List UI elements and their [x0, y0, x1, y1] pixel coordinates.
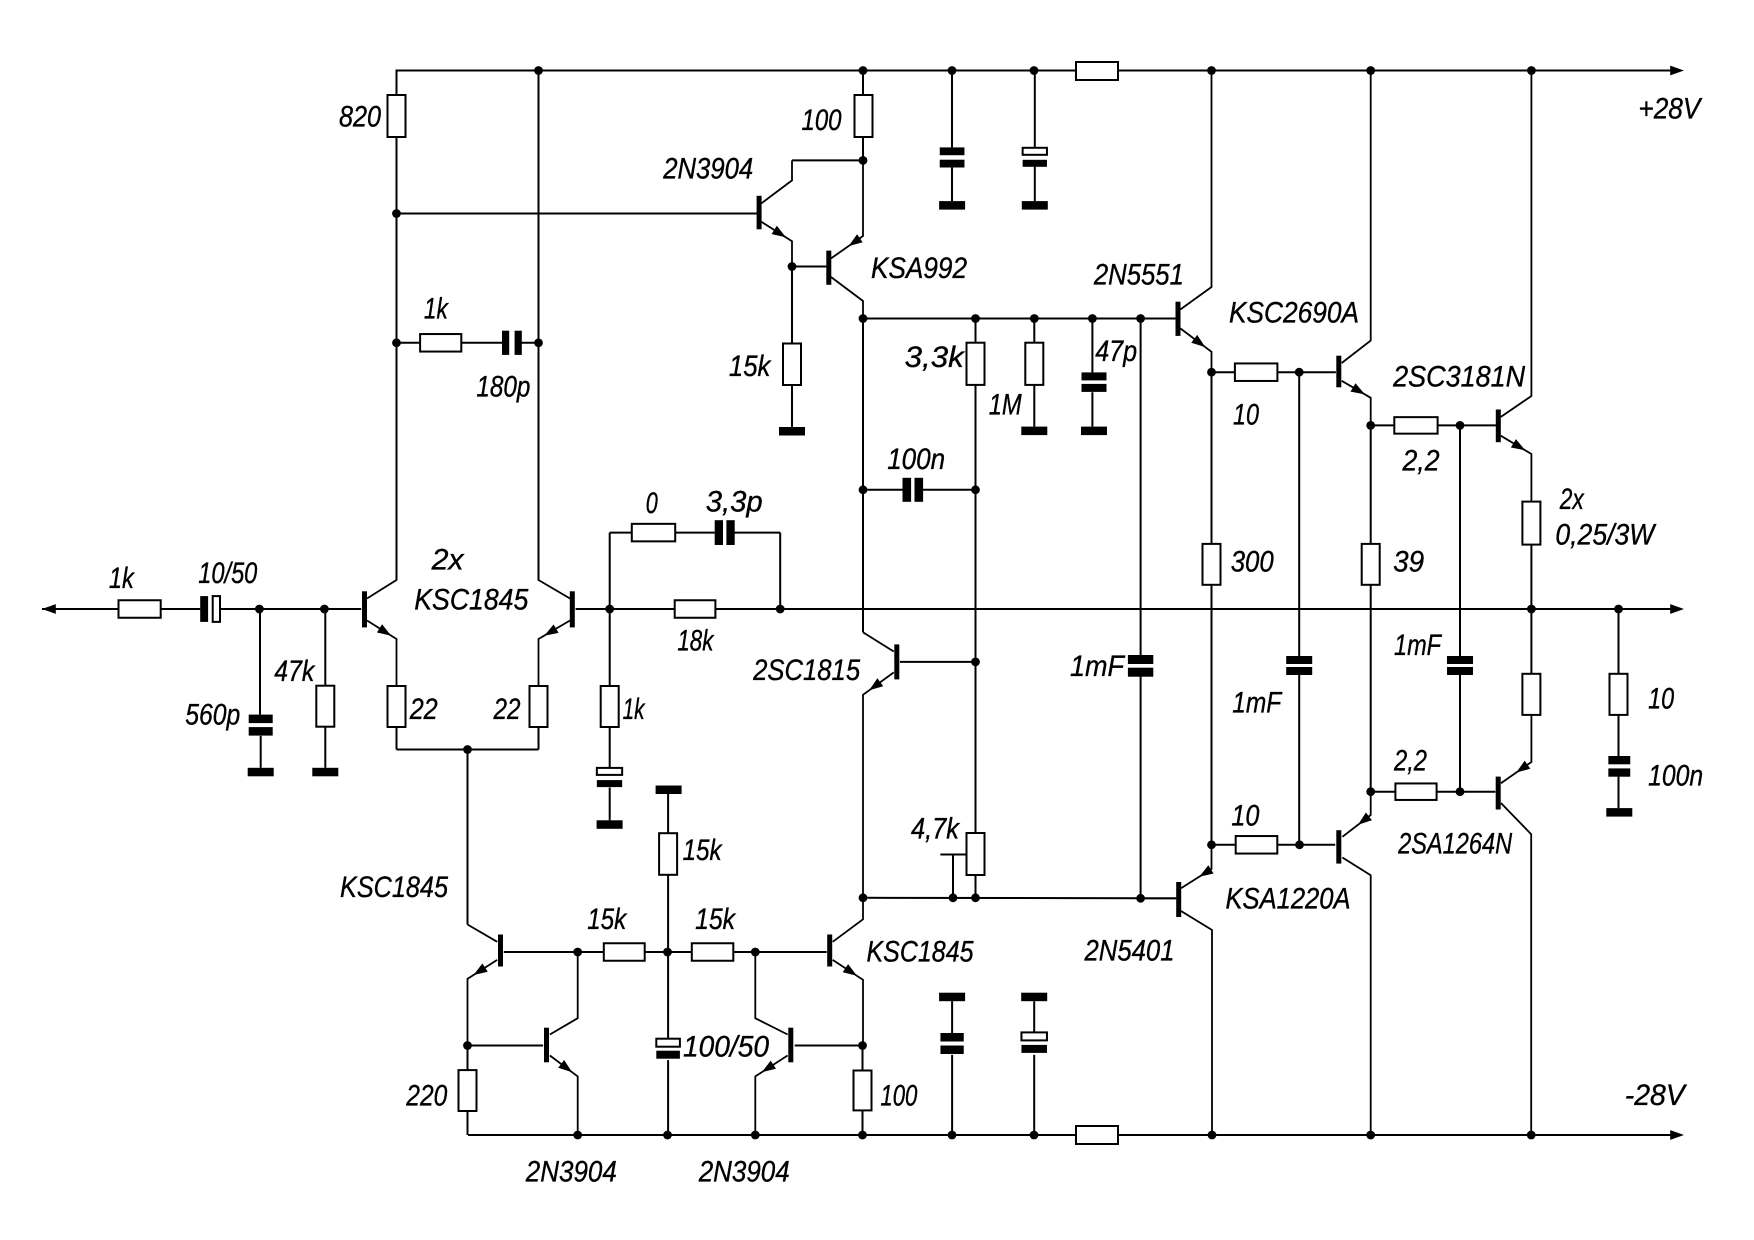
label 2x (input pair) — [431, 544, 465, 577]
svg-text:KSC1845: KSC1845 — [414, 584, 529, 617]
wire Q14 emitter diagonal — [1342, 792, 1370, 837]
svg-text:2N3904: 2N3904 — [698, 1156, 790, 1189]
wire Q2 emitter diagonal — [539, 621, 571, 687]
junction input node x=259.4 — [255, 605, 264, 614]
ground above bypass cap3 — [939, 993, 965, 1002]
svg-text:1mF: 1mF — [1232, 687, 1283, 720]
wire +28V rail right segment — [1118, 70, 1671, 72]
wire 100n left stub — [863, 489, 903, 491]
wire 3,3p to right corner — [734, 532, 780, 534]
capacitor 100n zobel — [1608, 756, 1630, 777]
wire 1299 cap leg lower — [1298, 675, 1300, 845]
junction output x=1618.5 — [1614, 605, 1623, 614]
ground above 15k mid — [656, 786, 682, 795]
junction x=1299.2 y=372.2 — [1295, 368, 1304, 377]
label 100 bottom — [880, 1080, 917, 1113]
capacitor 1mF (top driver-base link) — [1286, 656, 1312, 675]
label 10 zobel — [1648, 683, 1674, 716]
resistor 10 (bottom driver base) — [1236, 836, 1278, 854]
resistor 47k — [316, 686, 334, 727]
wire gnd to 15k mid — [667, 794, 669, 833]
svg-text:1k: 1k — [109, 562, 135, 595]
wire gnd to bypass cap4 — [1033, 1001, 1035, 1032]
junction x=396.5 y=342.8 (comp node) — [392, 338, 401, 347]
wire 15kR right — [733, 951, 755, 953]
svg-text:2,2: 2,2 — [1393, 745, 1427, 778]
junction on -28V rail x=862.5 — [858, 1131, 867, 1140]
svg-text:2SC3181N: 2SC3181N — [1392, 361, 1526, 394]
transistor Q8 2SC1815 (base bar) — [894, 644, 899, 679]
label 100 top — [802, 104, 842, 137]
svg-text:2N3904: 2N3904 — [662, 153, 753, 186]
wire output line (main) — [780, 608, 1671, 610]
label KSA992 — [871, 252, 967, 285]
junction Q5 emitter node — [1207, 368, 1216, 377]
arrow Q7 emitter — [1511, 439, 1525, 450]
wire 15kL left — [578, 951, 604, 953]
label KSC1845 vas — [867, 936, 974, 969]
junction VAS x=1140.6 — [1136, 314, 1145, 323]
svg-text:0,25/3W: 0,25/3W — [1555, 519, 1657, 552]
wire 18k to corner node — [715, 608, 780, 610]
svg-text:2,2: 2,2 — [1402, 445, 1440, 478]
label 15k bottom left — [587, 903, 627, 936]
junction KSA992 base node — [788, 262, 797, 271]
arrow Q15 emitter (PNP into bar) — [1516, 761, 1530, 773]
label 2N3904 bottom right — [698, 1156, 790, 1189]
wire rail corner to 820 — [396, 70, 398, 96]
svg-text:2SC1815: 2SC1815 — [752, 654, 860, 687]
wire right corner down — [779, 533, 781, 609]
svg-text:4,7k: 4,7k — [911, 813, 960, 846]
arrow Q1 emitter — [377, 624, 391, 636]
wire Q6 emitter diagonal — [1342, 381, 1371, 426]
wire Q15 emitter diagonal — [1501, 715, 1532, 783]
label 220 — [405, 1080, 447, 1113]
wire 100n zobel to ground — [1618, 777, 1620, 809]
wire Q11 base line — [468, 1045, 544, 1047]
wire tail down to current source — [467, 750, 469, 925]
transistor Q15 2SA1264N (base bar) — [1496, 777, 1501, 810]
junction x=755.3 y=952 — [751, 948, 760, 957]
svg-text:100n: 100n — [887, 443, 945, 476]
resistor 220 — [459, 1070, 477, 1111]
wire -28V rail left segment — [468, 1134, 1076, 1136]
label 2,2 top — [1402, 445, 1440, 478]
label 3,3k — [905, 341, 965, 374]
label 100n mid — [887, 443, 945, 476]
svg-text:1M: 1M — [989, 389, 1022, 422]
junction on +28V rail x=538.5 — [534, 66, 543, 75]
wire bypass cap2 drop — [1034, 71, 1036, 148]
wire Q9 collector diagonal — [833, 898, 863, 942]
wire Q11 emitter diagonal — [550, 1056, 578, 1136]
wire output to 10 zobel — [1618, 609, 1620, 674]
wire 10b left — [1212, 844, 1236, 846]
wire Q4 collector diagonal — [831, 277, 863, 319]
label 22 right — [493, 693, 521, 726]
label 15k top — [729, 350, 772, 383]
wire bias line to 2N5401 base — [1141, 897, 1177, 899]
junction on +28V rail x=1034 — [1030, 66, 1039, 75]
wire Q4 emitter diagonal — [831, 160, 863, 258]
resistor 100 top — [855, 95, 873, 137]
capacitor 10/50 input electrolytic — [200, 596, 220, 622]
resistor 0,25/3W bottom — [1522, 674, 1540, 715]
wire 39 down across output — [1370, 585, 1372, 792]
transistor Q7 2SC3181N (base bar) — [1496, 410, 1501, 443]
resistor 39 — [1362, 544, 1380, 585]
svg-text:2SA1264N: 2SA1264N — [1397, 828, 1512, 861]
label 1k comp — [424, 293, 449, 326]
wire +28V rail left segment — [397, 70, 1077, 72]
ground above bypass cap4 — [1021, 993, 1047, 1002]
transistor Q14 KSA1220A (base bar) — [1336, 830, 1341, 863]
junction on -28V rail x=755.3 — [751, 1131, 760, 1140]
wire Q12 base line — [795, 1045, 863, 1047]
wire Q5 collector diagonal — [1180, 71, 1211, 310]
wire 2,2 right to output base — [1438, 424, 1496, 426]
svg-text:15k: 15k — [695, 903, 736, 936]
arrow -28V rail end — [1670, 1130, 1684, 1140]
wire Q13 collector diagonal — [1181, 911, 1212, 1135]
svg-text:2x: 2x — [1559, 483, 1585, 516]
svg-text:10: 10 — [1233, 399, 1259, 432]
wire VAS node rail — [863, 318, 1176, 320]
wire VAS to 1M — [1033, 319, 1035, 343]
wire Q15 collector diagonal — [1501, 803, 1531, 1135]
wire Q3 collector to 100 resistor node — [792, 159, 863, 161]
junction Q10 emitter node — [463, 1041, 472, 1050]
wire rail to 100 — [862, 71, 864, 96]
svg-text:2N3904: 2N3904 — [525, 1156, 617, 1189]
junction Q14 emitter node — [1366, 787, 1375, 796]
wire 15kR left — [668, 951, 692, 953]
svg-text:KSC2690A: KSC2690A — [1229, 297, 1359, 330]
svg-text:100/50: 100/50 — [683, 1031, 770, 1064]
svg-text:+28V: +28V — [1638, 93, 1702, 126]
wire 1299 down to 1mF — [1298, 372, 1300, 656]
wire 10 right to base — [1277, 371, 1336, 373]
wire 220 to rail corner — [467, 1111, 469, 1135]
resistor 0,25/3W top — [1522, 502, 1540, 545]
wire -28V rail right segment — [1118, 1134, 1671, 1136]
resistor 1k feedback — [601, 686, 619, 727]
resistor 10 zobel — [1610, 674, 1628, 715]
svg-text:2x: 2x — [431, 544, 465, 577]
wire 10b right to base — [1277, 844, 1335, 846]
wire Q8 collector diagonal — [863, 632, 894, 651]
wire 180p to x=538.5 — [521, 342, 538, 344]
label 2,2 bottom — [1393, 745, 1427, 778]
fuse/resistor on +28V rail — [1076, 62, 1118, 80]
resistor 15k mid vertical — [659, 833, 677, 875]
transistor Q10 KSC1845 current source (base bar) — [498, 935, 503, 967]
junction on +28V rail x=1370.7 — [1366, 66, 1375, 75]
junction on +28V rail x=863 — [859, 66, 868, 75]
svg-text:3,3k: 3,3k — [905, 341, 965, 374]
junction VAS x=1034.3 — [1030, 314, 1039, 323]
arrow Q4 emitter (PNP into bar) — [849, 234, 863, 246]
arrow Q11 emitter — [558, 1060, 572, 1072]
capacitor bypass ceramic top — [940, 147, 965, 167]
wire Q11 collector diagonal — [550, 952, 578, 1035]
wire 3,3k down to 100n node — [975, 385, 977, 490]
svg-text:KSA992: KSA992 — [871, 252, 967, 285]
arrow Q5 emitter — [1191, 335, 1205, 347]
svg-text:100n: 100n — [1648, 760, 1703, 793]
label 100/50 — [683, 1031, 770, 1064]
junction wiper on bias line — [949, 893, 958, 902]
junction x=538.5 y=342.8 — [534, 338, 543, 347]
wire 2,2b right to base — [1437, 791, 1496, 793]
label -28V — [1625, 1079, 1687, 1112]
label 3,3p — [706, 486, 763, 519]
junction on +28V rail x=952 — [948, 66, 957, 75]
junction Q9 emitter node — [858, 1041, 867, 1050]
wire feedback node up — [609, 533, 611, 609]
svg-text:18k: 18k — [677, 625, 714, 658]
junction x=577.7 y=952 — [573, 948, 582, 957]
ground under 47p — [1081, 427, 1107, 436]
wire Q5 emitter node to 300 — [1211, 372, 1213, 544]
arrow Q2 emitter — [544, 625, 558, 636]
wire bias line — [863, 897, 1176, 900]
junction input node x=324.4 — [320, 605, 329, 614]
junction tail node — [463, 745, 472, 754]
resistor 10 (top driver base) — [1235, 363, 1278, 381]
arrow Q9 emitter — [843, 964, 857, 976]
junction on -28V rail x=577.7 — [573, 1131, 582, 1140]
label 47p — [1095, 335, 1137, 368]
svg-text:3,3p: 3,3p — [706, 486, 763, 519]
capacitor 1mF (output bases link) — [1447, 656, 1473, 675]
label 0,25/3W — [1555, 519, 1657, 552]
svg-text:100: 100 — [880, 1080, 917, 1113]
wire bypass cap2 to ground — [1034, 166, 1036, 201]
wire VAS to 47p — [1091, 319, 1093, 373]
label 2x output resistors — [1559, 483, 1585, 516]
arrow input line end (left) — [42, 604, 56, 614]
wire Q10 collector diagonal — [468, 925, 498, 942]
junction x=1299.5 y=844.8 — [1295, 840, 1304, 849]
wire 100 to collector node — [862, 137, 864, 160]
wire 1k comp to 180p — [461, 342, 502, 344]
wire Q8 base — [900, 661, 976, 663]
wire 538.5 rail drop — [538, 71, 540, 581]
label 180p — [476, 371, 530, 404]
capacitor 47p — [1082, 372, 1107, 392]
wire 1k to cap 10/50 — [161, 608, 201, 610]
wire Q3 collector diagonal — [761, 160, 792, 203]
junction under 100 resistor — [859, 156, 868, 165]
svg-text:15k: 15k — [683, 834, 723, 867]
svg-text:47p: 47p — [1095, 335, 1137, 368]
svg-text:-28V: -28V — [1625, 1079, 1687, 1112]
svg-text:15k: 15k — [729, 350, 772, 383]
junction on -28V rail x=1034 — [1030, 1131, 1039, 1140]
junction bias line x=1140.6 — [1136, 894, 1145, 903]
junction 100n right — [971, 485, 980, 494]
resistor 820 — [388, 95, 406, 137]
wire 560p drop — [259, 609, 261, 715]
label 10 top — [1233, 399, 1259, 432]
capacitor 1mF (VAS speedup) — [1128, 655, 1153, 677]
junction on +28V rail x=1211.5 — [1207, 66, 1216, 75]
junction on -28V rail x=667.5 — [663, 1131, 672, 1140]
resistor 1M — [1025, 343, 1043, 385]
label 1mF vas — [1070, 650, 1126, 683]
arrow Q12 emitter — [762, 1061, 776, 1073]
svg-text:1mF: 1mF — [1070, 650, 1126, 683]
svg-text:1mF: 1mF — [1394, 629, 1443, 662]
wire bypass cap3 to rail — [951, 1055, 953, 1135]
junction x=1460 y=425.4 — [1456, 421, 1465, 430]
wire Q9 base line — [755, 951, 826, 953]
wire Q7 emitter diagonal — [1501, 436, 1532, 502]
label 22 left — [409, 693, 438, 726]
ground under zobel — [1606, 808, 1632, 817]
wire 15k mid to bias row — [667, 875, 669, 952]
wire base node to 18k — [610, 608, 675, 610]
wire bypass cap1 to ground — [951, 166, 953, 201]
transistor Q3 2N3904 top (base bar) — [757, 196, 762, 230]
svg-text:1k: 1k — [424, 293, 449, 326]
wire Q2 collector diagonal — [539, 343, 571, 599]
wire base node down to 4,7k — [975, 662, 977, 833]
wire electrolytic to ground — [609, 788, 611, 821]
wire Q6 collector diagonal — [1342, 71, 1371, 364]
wire 47p to ground — [1091, 392, 1093, 426]
wire gnd to bypass cap3 — [951, 1001, 953, 1033]
wire 22R bottom to common — [538, 727, 540, 750]
wire Q9 emitter diagonal — [833, 960, 863, 1046]
wire 4,7k wiper drop — [952, 855, 954, 898]
wire 2,2 left — [1371, 424, 1395, 426]
resistor 1k input — [119, 600, 161, 618]
resistor 300 — [1203, 544, 1221, 585]
svg-text:560p: 560p — [185, 699, 240, 732]
arrow +28V rail end — [1670, 66, 1684, 76]
wire Q12 emitter diagonal — [755, 1056, 787, 1136]
wire Q12 collector diagonal — [755, 952, 787, 1035]
transistor Q11 2N3904 bottom-left (base bar) — [544, 1028, 549, 1063]
label 15k bottom right — [695, 903, 736, 936]
resistor 18k — [675, 600, 716, 618]
label 2SC3181N — [1392, 361, 1526, 394]
transistor Q1 KSC1845 left of input pair (base bar) — [362, 591, 367, 627]
wire 10 zobel to 100n — [1618, 715, 1620, 756]
label 1mF link1 — [1232, 687, 1283, 720]
junction on -28V rail x=1531.2 — [1527, 1131, 1536, 1140]
wire VAS to 3,3k — [975, 319, 977, 343]
wire input line to 1k — [42, 608, 119, 610]
arrow output line end — [1670, 604, 1684, 614]
arrow Q3 emitter — [772, 226, 786, 238]
wire Q10 emitter diagonal — [468, 960, 498, 1046]
svg-text:10: 10 — [1648, 683, 1674, 716]
svg-text:10: 10 — [1231, 800, 1259, 833]
wire Q13 emitter diagonal — [1181, 845, 1212, 889]
capacitor bypass electrolytic bottom — [1021, 1032, 1046, 1053]
wire 15k to ground — [791, 385, 793, 427]
capacitor 180p — [502, 331, 522, 355]
ground under 1M — [1021, 427, 1047, 436]
wire collector column x=863 (VAS node down) — [862, 319, 864, 633]
junction on -28V rail x=1212 — [1208, 1131, 1217, 1140]
svg-text:KSC1845: KSC1845 — [340, 871, 448, 904]
label 1k input — [109, 562, 135, 595]
ground under 15k top — [779, 427, 805, 436]
wire KSA992 base node to 15k — [791, 267, 793, 344]
svg-text:1k: 1k — [623, 693, 646, 726]
wire 100 to rail — [862, 1110, 864, 1135]
label KSC1845 (input pair) — [414, 584, 529, 617]
transistor Q6 KSC2690A (base bar) — [1336, 356, 1341, 388]
transistor Q5 2N5551 (base bar) — [1176, 302, 1181, 336]
junction VAS x=1092.4 — [1088, 314, 1097, 323]
label 300 — [1231, 546, 1275, 579]
ground under bypass cap1 — [939, 201, 965, 210]
svg-text:2N5551: 2N5551 — [1093, 259, 1184, 292]
wire emitter node to 100 — [862, 1046, 864, 1071]
wire 100/50 to rail — [667, 1060, 669, 1135]
label 2N5401 — [1084, 935, 1175, 968]
wire emitter node to 220 — [467, 1046, 469, 1071]
junction 4,7k bottom — [971, 893, 980, 902]
resistor 15k (KSA992 base pulldown) — [783, 344, 801, 386]
arrow Q6 emitter — [1351, 383, 1365, 394]
label 1k feedback — [623, 693, 646, 726]
label 2SC1815 — [752, 654, 860, 687]
svg-text:KSC1845: KSC1845 — [867, 936, 974, 969]
label 2SA1264N — [1397, 828, 1512, 861]
svg-text:22: 22 — [493, 693, 521, 726]
resistor 0 (feedback) — [632, 524, 675, 542]
svg-text:2N5401: 2N5401 — [1084, 935, 1175, 968]
label 15k mid — [683, 834, 723, 867]
wire 100n right stub — [923, 489, 976, 491]
capacitor 100n mid — [903, 478, 924, 502]
wire 15kL right — [645, 951, 668, 953]
wire Q6 emitter node to 39 — [1370, 425, 1372, 544]
label 2N3904 top — [662, 153, 753, 186]
junction feedback node — [605, 605, 614, 614]
capacitor bypass electrolytic top — [1023, 148, 1047, 167]
resistor 2,2 (top) — [1394, 417, 1437, 434]
junction 18k right — [776, 605, 785, 614]
wire Q2 base to feedback node — [576, 608, 610, 610]
ground under 560p — [248, 768, 274, 777]
label 1M — [989, 389, 1022, 422]
resistor 22 left — [388, 686, 406, 727]
capacitor 3,3p — [715, 520, 735, 545]
wire 4,7k bottom — [975, 875, 977, 898]
transistor Q2 KSC1845 right of input pair (base bar) — [570, 591, 575, 627]
wire Q10 base line — [504, 951, 578, 953]
ground under feedback cap — [597, 820, 623, 829]
resistor 15k bottom left — [604, 943, 645, 961]
fuse/resistor on -28V rail — [1076, 1126, 1118, 1144]
junction Q6 emitter node — [1366, 421, 1375, 430]
label KSC1845 cs — [340, 871, 448, 904]
label KSC2690A — [1229, 297, 1359, 330]
svg-text:100: 100 — [802, 104, 842, 137]
label 4,7k — [911, 813, 960, 846]
label 100n zobel — [1648, 760, 1703, 793]
junction on -28V rail x=1370.7 — [1366, 1131, 1375, 1140]
wire comp node to 1k — [397, 342, 421, 344]
